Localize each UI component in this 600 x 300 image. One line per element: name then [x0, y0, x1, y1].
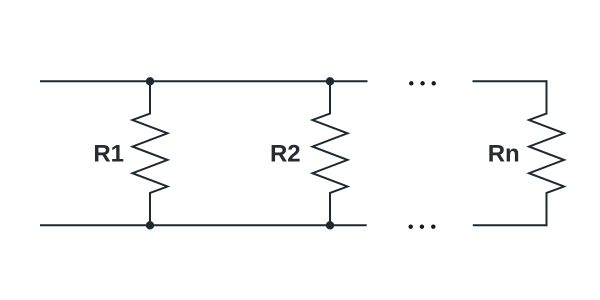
resistor Rn — [529, 80, 564, 226]
svg-text:Rn: Rn — [488, 141, 520, 168]
wire top bus — [40, 80, 368, 82]
junction node bottom of R1 — [146, 221, 154, 229]
svg-text:R2: R2 — [270, 141, 301, 168]
svg-text:R1: R1 — [93, 141, 124, 168]
wire bottom-right stub — [473, 224, 547, 226]
junction node top of R1 — [146, 77, 154, 85]
ellipsis continuation dots bottom — [409, 225, 436, 229]
ellipsis continuation dots top — [409, 81, 436, 85]
resistor R2 — [313, 81, 348, 225]
wire top-right stub — [473, 80, 547, 82]
junction node top of R2 — [326, 77, 334, 85]
junction node bottom of R2 — [326, 221, 334, 229]
resistor R1 — [133, 81, 168, 225]
wire bottom bus — [40, 224, 367, 226]
